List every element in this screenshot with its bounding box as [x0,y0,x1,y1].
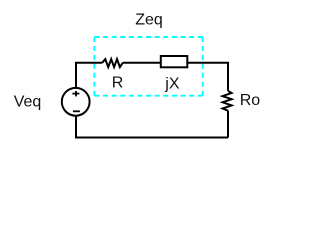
svg-text:Veq: Veq [14,94,42,111]
wire jX to top-right corner, down to Ro [187,63,228,91]
svg-text:Ro: Ro [240,92,261,109]
svg-text:R: R [112,74,124,91]
wire bottom rail [76,116,228,137]
dashed box Zeq boundary : left edge [93,37,95,96]
plus sign of Veq [72,93,79,95]
wire between R and jX [123,62,161,64]
dashed box Zeq boundary : top edge [94,36,202,38]
wire right vertical below Ro [227,111,229,138]
reactance box jX [161,56,188,67]
dashed box Zeq boundary : right edge [202,37,204,96]
resistor Ro [223,91,232,111]
dashed box Zeq boundary : bottom edge [94,95,202,97]
wire from Veq top to top rail [76,63,102,88]
resistor R [102,59,123,67]
svg-text:jX: jX [164,76,180,93]
minus sign of Veq [73,110,80,112]
svg-text:Zeq: Zeq [135,12,163,29]
source Veq circle [62,88,90,116]
